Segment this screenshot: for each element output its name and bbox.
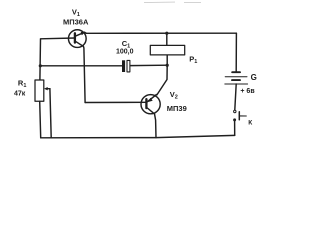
svg-text:R1: R1 [18,79,26,90]
svg-text:47к: 47к [14,91,26,98]
wire R1 bottom to rail [40,101,41,138]
svg-text:G: G [251,73,257,82]
svg-text:100,0: 100,0 [116,49,134,56]
wire P1 bottom lead [166,55,168,65]
node A junction dot [39,64,42,67]
wire right side down to battery [235,33,237,72]
svg-text:К: К [248,119,252,126]
wire V1 base to left and down to R1 top [40,38,75,80]
wire top rail [86,32,236,34]
junction dot on top rail above P1 [165,32,168,35]
transistor V2 МП39 [141,95,160,114]
resistor R1 potentiometer body [35,80,44,101]
wire C1 right plate to node B [130,64,167,66]
switch K push-button [233,110,246,121]
scan artifact top edge [144,1,201,4]
svg-text:МП36А: МП36А [63,18,89,27]
svg-text:Р1: Р1 [189,55,197,66]
svg-text:V2: V2 [170,90,178,101]
transistor V1 МП36А [68,30,86,48]
wire middle: node A to C1 left plate [40,65,122,67]
wire node B down and diagonal to V2 emitter [157,65,167,95]
capacitor C1 electrolytic [122,60,130,72]
svg-text:V1: V1 [72,7,80,18]
wire wiper down to rail [50,89,51,138]
wire V1 collector down [83,46,85,102]
wire switch to bottom rail [234,120,236,135]
potentiometer wiper arrow [44,87,50,90]
relay P1 [150,45,184,55]
wire bottom rail [41,135,235,137]
svg-text:МП39: МП39 [167,104,187,113]
battery G cells [225,72,248,84]
wire V2 collector down to bottom rail [155,114,157,138]
node B junction dot below P1 [166,64,169,67]
svg-text:+ 6в: + 6в [240,88,255,95]
wire to V2 base [85,101,146,103]
wire P1 top lead [166,33,168,45]
wire battery bottom to switch [235,84,236,110]
